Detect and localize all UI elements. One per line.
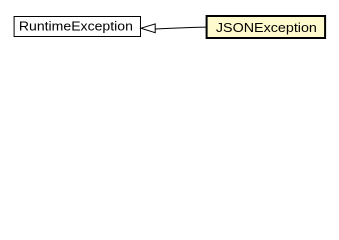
svg-text:RuntimeException: RuntimeException <box>19 19 133 33</box>
background <box>0 0 339 59</box>
class box JSONException (highlighted) <box>207 16 326 38</box>
generalization arrowhead (hollow triangle) <box>141 24 155 33</box>
box RuntimeException border <box>14 17 140 37</box>
svg-text:JSONException: JSONException <box>216 21 317 35</box>
box JSONException border <box>207 16 326 38</box>
wire (inheritance edge spline) <box>155 27 206 29</box>
class box RuntimeException <box>14 17 140 37</box>
